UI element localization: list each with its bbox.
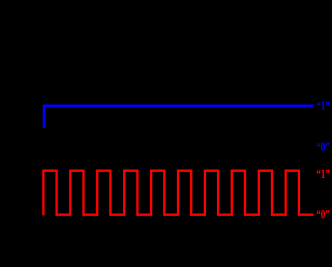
svg-text:“1”: “1”	[316, 166, 330, 181]
clock signal (red square wave)	[43, 171, 313, 216]
svg-text:“0”: “0”	[316, 206, 330, 221]
svg-text:“0”: “0”	[316, 139, 330, 154]
enable signal (blue step waveform)	[44, 106, 314, 128]
svg-text:“1”: “1”	[316, 98, 330, 113]
